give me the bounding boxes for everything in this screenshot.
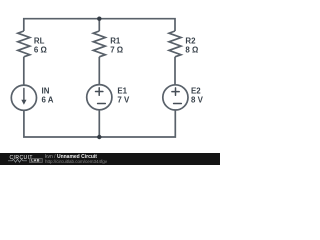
wire R1 to E1 (98, 57, 100, 85)
node B bottom junction dot (97, 135, 101, 139)
svg-text:RL: RL (34, 36, 45, 45)
svg-text:E1: E1 (117, 87, 127, 96)
footer logo LAB box (30, 158, 43, 162)
IN arrow shaft (23, 88, 25, 100)
current source IN circle (11, 85, 36, 110)
svg-text:8 Ω: 8 Ω (185, 45, 198, 54)
wire R2 to E2 (174, 57, 176, 85)
E2 plus sign (172, 88, 179, 95)
svg-text:7 V: 7 V (117, 96, 130, 105)
node A top junction dot (97, 17, 101, 21)
wire top horizontal with corner leads (24, 19, 175, 31)
footer logo resistor squiggle (8, 159, 27, 162)
svg-text:7 Ω: 7 Ω (110, 45, 123, 54)
svg-text:R1: R1 (110, 36, 121, 45)
E1 plus sign (96, 88, 103, 95)
svg-text:8 V: 8 V (191, 96, 204, 105)
svg-text:6 Ω: 6 Ω (34, 45, 47, 54)
svg-text:LAB: LAB (31, 159, 40, 163)
wire E1 to bottom (98, 110, 100, 137)
svg-text:6 A: 6 A (42, 96, 54, 105)
wire bottom horizontal with corner leads (24, 110, 175, 137)
wire RL to IN (23, 57, 25, 86)
svg-text:E2: E2 (191, 87, 201, 96)
footer bar (0, 153, 220, 165)
wire mid branch top lead (98, 19, 100, 31)
voltage source E1 circle (87, 85, 112, 110)
svg-text:http://circuitlab.com/cem344fg: http://circuitlab.com/cem344fgv (45, 159, 108, 164)
E2 minus sign (174, 103, 182, 105)
resistor R2 (169, 31, 181, 57)
resistor R1 (93, 31, 105, 57)
IN arrow head (21, 100, 26, 105)
svg-text:IN: IN (42, 87, 50, 96)
svg-text:R2: R2 (185, 36, 196, 45)
voltage source E2 circle (163, 85, 188, 110)
resistor RL (18, 31, 30, 57)
E1 minus sign (98, 103, 106, 105)
